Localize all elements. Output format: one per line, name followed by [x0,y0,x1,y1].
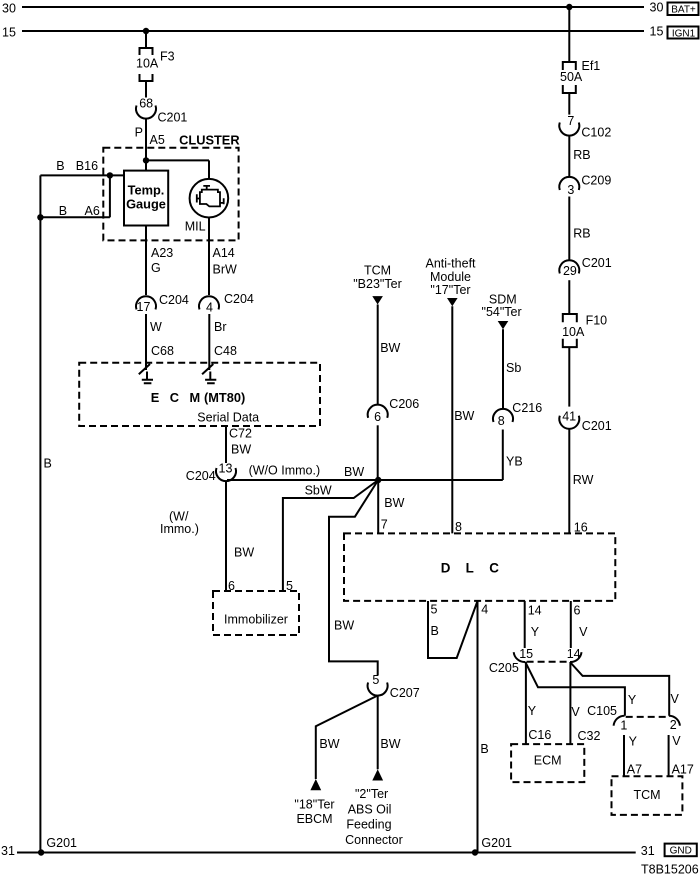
svg-text:MIL: MIL [185,219,206,233]
svg-text:"2"Ter: "2"Ter [355,787,388,801]
svg-text:(MT80): (MT80) [204,390,245,405]
svg-text:C105: C105 [587,704,617,718]
svg-text:V: V [579,625,588,639]
svg-text:1: 1 [620,718,627,732]
svg-text:BrW: BrW [213,263,238,277]
svg-text:T8B15206: T8B15206 [641,863,699,877]
svg-text:BW: BW [344,465,364,479]
svg-text:GND: GND [670,846,692,857]
svg-text:A5: A5 [150,133,165,147]
svg-text:C16: C16 [528,728,551,742]
svg-text:C68: C68 [151,344,174,358]
svg-text:D: D [441,560,451,575]
svg-text:C201: C201 [582,419,612,433]
svg-text:BW: BW [384,496,404,510]
svg-text:31: 31 [1,844,15,858]
svg-text:G201: G201 [481,836,512,850]
svg-text:BW: BW [319,737,339,751]
svg-text:7: 7 [381,518,388,532]
svg-text:C204: C204 [224,292,254,306]
svg-text:IGN1: IGN1 [672,28,696,39]
svg-text:6: 6 [574,604,581,618]
svg-text:TCM: TCM [633,788,660,802]
svg-text:C32: C32 [578,729,601,743]
svg-text:Y: Y [528,704,537,718]
svg-text:5: 5 [286,579,293,593]
svg-text:C201: C201 [582,256,612,270]
svg-text:B16: B16 [76,159,98,173]
svg-text:C48: C48 [214,344,237,358]
svg-text:C206: C206 [389,397,419,411]
svg-text:TCM: TCM [364,263,391,277]
svg-text:BW: BW [231,443,251,457]
svg-text:Immobilizer: Immobilizer [224,612,288,626]
svg-text:Feeding: Feeding [346,818,391,832]
svg-text:RW: RW [573,473,594,487]
svg-text:41: 41 [562,410,576,424]
svg-text:B: B [44,456,52,470]
svg-text:"18"Ter: "18"Ter [294,798,334,812]
svg-text:(W/O Immo.): (W/O Immo.) [249,463,321,477]
svg-text:E: E [151,390,160,405]
svg-text:Module: Module [430,270,471,284]
svg-text:ABS Oil: ABS Oil [348,802,392,816]
svg-text:"B23"Ter: "B23"Ter [353,277,401,291]
svg-text:15: 15 [519,647,533,661]
svg-text:RB: RB [573,226,590,240]
svg-text:G: G [151,261,161,275]
svg-text:Connector: Connector [345,833,403,847]
svg-text:A6: A6 [85,204,100,218]
svg-text:C102: C102 [581,125,611,139]
svg-text:C201: C201 [158,111,188,125]
svg-text:V: V [671,692,680,706]
svg-text:Sb: Sb [506,361,521,375]
svg-text:L: L [466,560,474,575]
svg-text:Y: Y [629,734,638,748]
svg-text:8: 8 [455,520,462,534]
svg-text:BW: BW [454,409,474,423]
svg-text:30: 30 [2,1,16,15]
svg-text:W: W [150,320,162,334]
svg-text:Br: Br [214,320,227,334]
svg-text:EBCM: EBCM [296,812,332,826]
svg-text:ECM: ECM [534,753,562,767]
svg-text:Temp.: Temp. [128,182,165,197]
svg-text:B: B [480,742,488,756]
svg-text:BW: BW [334,619,354,633]
svg-text:RB: RB [573,148,590,162]
svg-text:BW: BW [234,546,254,560]
svg-text:7: 7 [567,114,574,128]
svg-text:5: 5 [431,602,438,616]
svg-text:M: M [190,390,201,405]
svg-text:C205: C205 [489,661,519,675]
svg-text:Immo.): Immo.) [160,522,199,536]
svg-text:G201: G201 [46,836,77,850]
svg-text:Ef1: Ef1 [582,59,601,73]
svg-text:68: 68 [139,97,153,111]
svg-text:A14: A14 [213,246,235,260]
svg-text:V: V [672,734,681,748]
svg-text:"54"Ter: "54"Ter [482,305,522,319]
svg-text:B: B [56,159,64,173]
svg-text:Gauge: Gauge [126,197,166,212]
svg-text:16: 16 [574,521,588,535]
svg-text:6: 6 [228,579,235,593]
svg-text:Y: Y [531,625,540,639]
svg-text:3: 3 [567,183,574,197]
svg-text:A7: A7 [627,763,642,777]
svg-text:"17"Ter: "17"Ter [430,283,470,297]
svg-text:A23: A23 [151,246,173,260]
svg-text:C216: C216 [512,401,542,415]
svg-text:10A: 10A [136,57,159,71]
svg-text:A17: A17 [672,763,694,777]
svg-text:Y: Y [628,693,637,707]
svg-text:2: 2 [670,718,677,732]
svg-text:13: 13 [219,461,233,475]
svg-text:Serial Data: Serial Data [197,410,259,424]
svg-text:6: 6 [374,410,381,424]
svg-text:17: 17 [137,300,151,314]
svg-text:C204: C204 [159,293,189,307]
svg-text:29: 29 [563,264,577,278]
svg-text:P: P [135,126,143,140]
svg-text:BW: BW [380,737,400,751]
svg-text:30: 30 [650,1,664,15]
svg-text:BW: BW [380,341,400,355]
svg-text:BAT+: BAT+ [671,4,696,15]
svg-text:C209: C209 [581,173,611,187]
svg-text:31: 31 [641,844,655,858]
svg-text:15: 15 [2,25,16,39]
svg-text:V: V [571,705,580,719]
svg-text:15: 15 [650,25,664,39]
svg-text:C207: C207 [390,686,420,700]
svg-text:14: 14 [528,604,542,618]
svg-text:8: 8 [498,414,505,428]
svg-text:C204: C204 [186,469,216,483]
svg-text:B: B [59,204,67,218]
svg-text:SbW: SbW [305,483,332,497]
svg-text:50A: 50A [560,70,583,84]
svg-text:4: 4 [206,301,213,315]
svg-text:10A: 10A [562,325,585,339]
svg-text:F3: F3 [160,50,175,64]
svg-text:C: C [489,560,499,575]
svg-text:CLUSTER: CLUSTER [179,133,239,148]
svg-text:F10: F10 [586,313,608,327]
svg-text:YB: YB [506,454,523,468]
svg-text:5: 5 [372,673,379,687]
svg-text:C: C [170,390,179,405]
svg-text:C72: C72 [229,426,252,440]
svg-text:B: B [431,624,439,638]
svg-text:4: 4 [481,603,488,617]
svg-text:Anti-theft: Anti-theft [425,256,476,270]
svg-text:14: 14 [567,647,581,661]
